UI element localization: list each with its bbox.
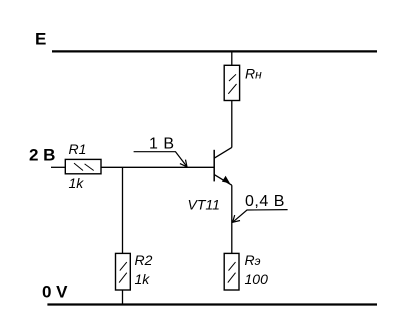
resistor R2 [116, 253, 131, 290]
svg-text:R1: R1 [69, 141, 87, 157]
svg-text:1k: 1k [69, 175, 85, 191]
power rail E (top) [52, 50, 377, 52]
svg-text:0 V: 0 V [42, 283, 68, 302]
wire: R1 to base of VT11 [101, 166, 214, 168]
wire: R2 to 0V rail [122, 290, 124, 305]
svg-text:1 В: 1 В [149, 136, 175, 153]
wire: Rн to collector of VT11 [231, 101, 233, 148]
svg-text:100: 100 [245, 271, 269, 287]
svg-text:1k: 1k [135, 271, 151, 287]
annotation arrow: 1 В to base [134, 152, 187, 167]
svg-text:Rэ: Rэ [245, 252, 261, 268]
wire: emitter of VT11 to Rэ [231, 185, 233, 253]
svg-text:Rн: Rн [245, 66, 262, 82]
wire: top rail to Rн [231, 51, 233, 65]
wire: input stub to R1 [51, 166, 65, 168]
svg-text:VT11: VT11 [188, 197, 220, 213]
resistor Rн [224, 65, 239, 100]
power rail 0V (bottom) [47, 303, 377, 305]
svg-text:2 В: 2 В [29, 146, 55, 165]
svg-text:0,4 В: 0,4 В [245, 193, 285, 210]
wire: base node down to R2 [122, 167, 124, 253]
svg-text:E: E [35, 30, 46, 49]
resistor R1 [65, 159, 101, 173]
annotation arrow: 0,4 В to emitter [233, 210, 288, 223]
transistor VT11 [214, 147, 232, 185]
resistor Rэ [224, 253, 239, 290]
svg-text:R2: R2 [135, 252, 153, 268]
